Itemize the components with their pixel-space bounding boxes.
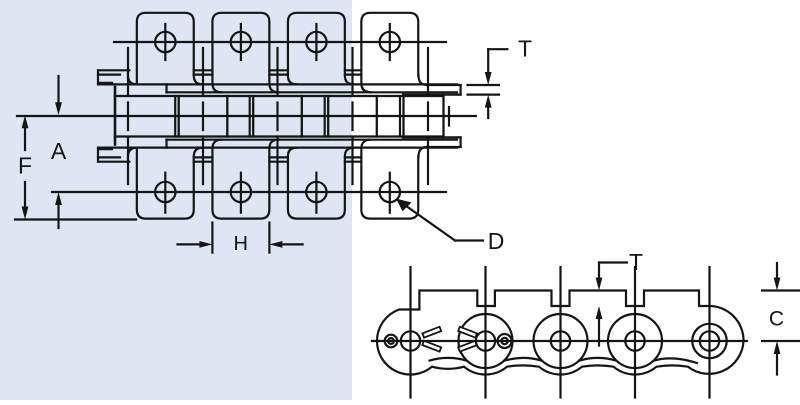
hole D2 bottom xyxy=(231,182,251,202)
side pin P1 centerline xyxy=(409,267,411,398)
side pin P4 centerline xyxy=(634,267,636,398)
dim C top extension xyxy=(762,289,800,291)
side pin P3 centerline xyxy=(559,267,561,398)
wire inner plate bend top xyxy=(167,91,458,93)
pin P4 centerline xyxy=(351,48,353,95)
hole D4 bottom xyxy=(380,182,400,202)
channel rungs at pin P3 xyxy=(269,69,288,71)
wire inner plate bend bottom xyxy=(167,139,458,141)
plate ear bottom-left xyxy=(98,161,129,163)
attachment tab K4 top xyxy=(361,13,418,93)
wire bushing edge bottom xyxy=(301,135,328,137)
dim F lower arrow xyxy=(24,182,26,207)
wire outer plate edge top xyxy=(98,83,457,85)
hole D3 bottom xyxy=(306,182,326,202)
svg-text:A: A xyxy=(51,138,67,164)
hole D1 bottom xyxy=(155,182,175,202)
dim F label xyxy=(18,153,32,179)
hole D4 top xyxy=(380,32,400,52)
wire bushing edge top xyxy=(301,95,328,97)
pin P2 centerline xyxy=(202,48,204,95)
wire bushing edge top xyxy=(115,95,179,97)
side dim T lower arrow xyxy=(598,320,600,346)
dim A lower arrow xyxy=(57,205,59,229)
roller R2 xyxy=(179,96,228,137)
dim T lower arrow xyxy=(487,106,489,118)
link plate end contour at P2 xyxy=(459,314,513,368)
hole D1 top crosshair xyxy=(164,24,166,60)
side dim T upper arrow xyxy=(596,278,603,291)
hole D4 top crosshair xyxy=(389,24,391,60)
side view chain outline xyxy=(377,291,744,375)
upper waist line 2-3 xyxy=(505,358,542,361)
cotter ring left of P1 xyxy=(385,335,398,348)
hole D3 top crosshair xyxy=(315,24,317,60)
svg-text:T: T xyxy=(518,36,532,62)
hole D3 bottom crosshair xyxy=(315,173,317,213)
link plate end contour at P3 xyxy=(534,314,588,368)
svg-text:F: F xyxy=(18,153,32,179)
roller R5 (cut at end) xyxy=(404,96,444,137)
side roller on pin P5 xyxy=(700,331,719,350)
upper waist line 3-4 xyxy=(580,358,616,361)
dim T reference lines xyxy=(468,84,500,86)
dim H right arrow xyxy=(282,243,303,245)
side pin P2 centerline xyxy=(484,267,486,398)
attachment tab K3 bottom xyxy=(288,148,354,219)
cotter pin prongs at P2 xyxy=(458,327,477,338)
roller R3 xyxy=(253,96,302,137)
side pin P5 centerline xyxy=(708,267,710,398)
pin P1 centerline xyxy=(127,48,129,95)
dim A label xyxy=(51,138,67,164)
side pin P2 xyxy=(476,331,495,350)
hole D3 top xyxy=(306,32,326,52)
wire bushing edge top xyxy=(227,95,252,97)
roller R2 flange line xyxy=(174,96,176,137)
upper waist line 1-2 xyxy=(430,358,467,361)
attachment tab K4 bottom xyxy=(361,140,418,219)
channel rungs bottom at pin P2 xyxy=(194,161,213,163)
hole D1 top xyxy=(155,32,175,52)
dim T label xyxy=(518,36,532,62)
side dim T label xyxy=(629,249,643,275)
dim T leader xyxy=(488,48,507,50)
hole D1 bottom crosshair xyxy=(164,173,166,213)
side pin P3 xyxy=(551,331,570,350)
svg-text:H: H xyxy=(233,233,247,255)
plate ear bottom-right xyxy=(427,146,461,148)
side dim T leader xyxy=(599,261,627,263)
hole D4 bottom crosshair xyxy=(389,173,391,213)
wire bushing edge bottom xyxy=(377,135,403,137)
roller R4 flange line xyxy=(324,96,326,137)
wire chain centerline xyxy=(17,115,476,117)
dim C label xyxy=(769,308,784,331)
dim H label xyxy=(233,233,247,255)
upper waist line 4-5 xyxy=(654,358,697,363)
channel rungs bottom at pin P4 xyxy=(345,161,362,163)
hole D2 top crosshair xyxy=(240,24,242,60)
dim D label xyxy=(488,228,505,254)
svg-text:D: D xyxy=(488,228,505,254)
chain right end edge xyxy=(448,107,450,126)
plate ear top-left xyxy=(98,69,129,71)
pin P5 centerline xyxy=(427,48,429,95)
attachment tab K2 bottom xyxy=(212,140,278,219)
leader D arrow xyxy=(400,202,455,241)
attachment tab K1 top xyxy=(137,13,203,85)
light blue panel xyxy=(0,0,352,400)
channel rungs at pin P2 xyxy=(194,69,213,71)
wire bushing edge bottom xyxy=(115,135,179,137)
hole D2 top xyxy=(231,32,251,52)
roller R3 flange line xyxy=(249,96,251,137)
flare arc at pin P1 top xyxy=(128,76,137,85)
dim H left arrow xyxy=(178,243,201,245)
wire bottom hole centerline / ext A xyxy=(52,191,446,193)
link plate end contour at P4 xyxy=(608,314,662,368)
pin P3 centerline xyxy=(276,48,278,95)
flare arc at pin P1 bottom xyxy=(128,148,137,157)
chain left end edge xyxy=(114,87,117,145)
dim H right extension line xyxy=(268,223,270,253)
attachment tab K3 top xyxy=(288,13,354,85)
attachment tab K2 top xyxy=(212,13,278,93)
wire bushing edge bottom xyxy=(227,135,252,137)
roller R5 flange line xyxy=(399,96,401,137)
side view horizontal centerline xyxy=(372,340,747,342)
dim A upper arrow xyxy=(57,76,59,103)
cotter ring right of P2 xyxy=(498,334,512,348)
dim T upper arrow xyxy=(485,72,492,85)
dim H left extension line xyxy=(211,223,213,253)
dim C bottom extension xyxy=(762,340,800,342)
channel rungs bottom at pin P3 xyxy=(269,161,288,163)
hole D2 bottom crosshair xyxy=(240,173,242,213)
side pin P1 xyxy=(401,331,420,350)
wire outer plate edge bottom xyxy=(98,147,457,149)
attachment tab K1 bottom xyxy=(137,148,203,219)
side pin P4 xyxy=(625,331,644,350)
dim C upper arrow xyxy=(776,263,778,278)
plate ear top-right xyxy=(427,84,461,86)
svg-text:T: T xyxy=(629,249,643,275)
svg-text:C: C xyxy=(769,308,784,331)
channel rungs at pin P4 xyxy=(345,69,362,71)
dim F bottom extension line xyxy=(15,218,136,220)
wire top hole centerline xyxy=(114,41,446,43)
dim F upper arrow xyxy=(24,128,26,150)
wire bushing edge top xyxy=(377,95,403,97)
roller R4 xyxy=(328,96,377,137)
cotter pin prongs at P1 xyxy=(422,327,441,338)
dim C lower arrow xyxy=(776,355,778,375)
